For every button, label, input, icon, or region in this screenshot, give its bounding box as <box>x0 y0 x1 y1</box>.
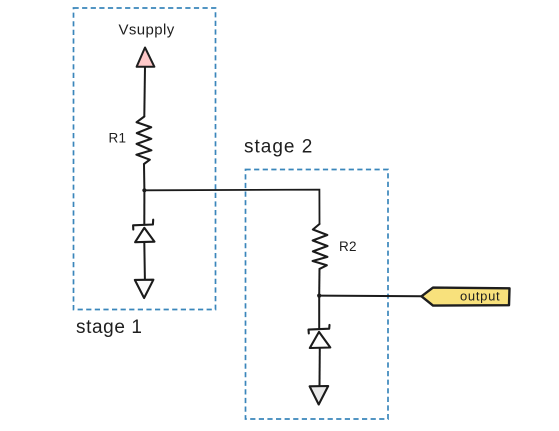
svg-text:stage 1: stage 1 <box>76 317 143 338</box>
wire D2 to ground <box>319 348 321 386</box>
svg-text:R1: R1 <box>109 131 127 146</box>
supply terminal Vsupply <box>137 48 155 67</box>
ground stage 2 <box>310 386 329 405</box>
zener diode D2 <box>309 325 331 348</box>
stage 1 enclosure <box>74 8 216 310</box>
zener diode D1 <box>133 220 154 243</box>
svg-text:output: output <box>460 289 500 304</box>
svg-text:R2: R2 <box>339 239 357 254</box>
resistor R2 <box>313 224 328 269</box>
resistor R1 <box>136 117 151 165</box>
node A junction <box>142 188 146 192</box>
node B junction <box>317 294 321 298</box>
wire node B to zener D2 <box>318 296 320 329</box>
wire node A to R2 <box>144 190 319 224</box>
wire node A to zener D1 <box>143 191 145 226</box>
wire node B to output <box>319 295 421 298</box>
wire R2 to node B <box>318 269 320 296</box>
wire R1 to node A <box>143 164 145 191</box>
output flag <box>422 288 510 306</box>
svg-text:stage 2: stage 2 <box>244 137 313 158</box>
wire supply to R1 <box>143 67 146 117</box>
stage 2 enclosure <box>246 170 389 420</box>
svg-text:Vsupply: Vsupply <box>119 22 175 39</box>
wire D1 to ground <box>143 242 146 279</box>
ground stage 1 <box>135 280 154 298</box>
